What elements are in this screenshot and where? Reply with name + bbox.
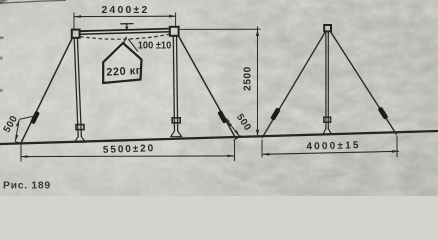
- 5500 extension right: [234, 140, 236, 161]
- 500 dim mid guy: line: [227, 120, 240, 136]
- scan smudge top-left edge: [0, 0, 66, 3]
- svg-text:Рис. 189: Рис. 189: [3, 181, 51, 192]
- corner square right: [170, 27, 179, 36]
- pentagon hanger hook: [124, 37, 127, 43]
- svg-text:5500±20: 5500±20: [103, 143, 156, 156]
- load arrow shaft: [126, 24, 128, 29]
- svg-text:100 ±10: 100 ±10: [138, 39, 172, 51]
- right post foot: [170, 131, 182, 137]
- 500 dim mid guy: ticks: [221, 114, 242, 140]
- 500 dim left guy: ticks: [15, 116, 34, 143]
- arrow left of 2400: [74, 15, 81, 18]
- 2500 dimension line: [257, 26, 259, 136]
- 500 dim left arrows: [15, 120, 19, 142]
- beam top chord: [80, 29, 171, 32]
- arrow right of 2400: [169, 15, 176, 18]
- svg-text:4000±15: 4000±15: [306, 140, 361, 152]
- left guy turnbuckle: [30, 111, 40, 125]
- left post foot: [74, 137, 86, 143]
- 500 dim mid arrows: [227, 120, 240, 136]
- right guy turnbuckle: [217, 110, 228, 124]
- dimension 2400±2 line: [74, 15, 176, 17]
- 4000 extension right: [396, 136, 398, 158]
- 2500 bottom arrow: [256, 130, 259, 137]
- load arrowhead: [125, 27, 128, 32]
- left post collar: [76, 125, 84, 130]
- left post: [74, 38, 78, 137]
- 5500 arrows: [21, 155, 235, 159]
- 4000 arrows: [262, 150, 399, 156]
- mast top square: [324, 25, 331, 31]
- svg-text:2400±2: 2400±2: [101, 5, 149, 16]
- corner square left: [72, 30, 80, 38]
- left edge marks: [0, 37, 4, 39]
- mast left guy: [262, 31, 326, 138]
- svg-text:2500: 2500: [243, 66, 254, 91]
- right post collar: [172, 118, 180, 123]
- 4000 dimension line: [262, 151, 399, 154]
- load application bar: [120, 23, 133, 25]
- mast collar: [324, 117, 331, 122]
- mast left turnbuckle: [270, 107, 281, 121]
- mast right turnbuckle: [377, 106, 388, 120]
- mast right guy: [330, 31, 396, 134]
- scan smudge corner blob: [0, 0, 8, 5]
- mast: [325, 32, 327, 130]
- 4000 extension left: [261, 140, 263, 158]
- extension line left of 2400: [73, 13, 75, 30]
- 2500 extension line from beam: [179, 28, 261, 30]
- 5500 extension left: [20, 145, 22, 162]
- weight pentagon: [103, 43, 141, 83]
- mast foot: [323, 129, 332, 135]
- 2500 top arrow: [256, 29, 259, 36]
- right post: [173, 36, 174, 132]
- right guy wire: [179, 37, 236, 139]
- 500 dim left guy: line: [15, 120, 19, 142]
- leader to 100±10: [128, 39, 138, 51]
- left guy wire: [21, 38, 73, 144]
- beam deflection dashed line: [80, 34, 170, 39]
- extension line right of 2400: [175, 13, 177, 27]
- beam bottom chord: [80, 32, 171, 35]
- 5500 dimension line: [21, 155, 235, 158]
- svg-text:220 кг: 220 кг: [106, 65, 141, 79]
- ground line: [0, 131, 438, 144]
